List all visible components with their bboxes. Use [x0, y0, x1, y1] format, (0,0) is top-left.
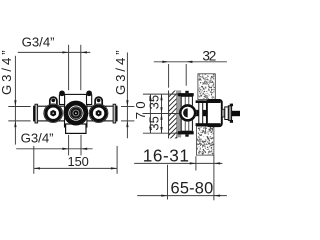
svg-text:G3/4”: G3/4”: [113, 48, 128, 95]
svg-text:G3/4”: G3/4”: [21, 131, 54, 146]
svg-text:G3/4”: G3/4”: [0, 48, 14, 95]
finished-wall hatched strip: [169, 89, 177, 145]
bottom G3/4 dimension line: [16, 148, 92, 150]
svg-text:16-31: 16-31: [143, 145, 190, 165]
svg-text:G3/4”: G3/4”: [22, 34, 55, 49]
bottom G3/4 extension lines: [68, 135, 70, 156]
right pipe end cap: [116, 106, 118, 121]
bottom cap bar: [178, 131, 194, 134]
side view riser pipe body: [181, 96, 192, 131]
right port dome: [95, 97, 102, 106]
right pipe edge ticks: [121, 106, 134, 108]
cartridge hub connectors: [192, 110, 198, 116]
spindle connector: [222, 109, 225, 117]
dimension 70: [149, 94, 151, 133]
masonry wall bottom block: [196, 126, 214, 155]
left pipe end cap: [33, 106, 35, 121]
left pipe flange: [35, 104, 38, 123]
masonry wall top block: [198, 74, 215, 100]
left port dome: [50, 97, 57, 106]
valve stem: [232, 111, 240, 116]
cartridge flange plate: [199, 101, 203, 126]
horizontal supply pipe: [34, 106, 117, 121]
right G3/4 dimension line: [126, 53, 128, 139]
cartridge top rail: [196, 100, 221, 103]
svg-text:35: 35: [147, 95, 162, 109]
left screw cylinder: [59, 95, 64, 105]
left port ring: [44, 104, 63, 123]
left pipe edge ticks: [8, 106, 30, 108]
svg-text:35: 35: [147, 116, 162, 130]
right screw cylinder: [87, 95, 92, 105]
dimension ticks 70/35: [143, 93, 179, 95]
left G3/4 dimension line: [14, 56, 16, 145]
dimension 150: [33, 146, 35, 174]
side view pipe circle: [179, 104, 197, 122]
bottom outlet stub: [66, 124, 86, 133]
right port ring: [89, 104, 108, 123]
top G3/4 dimension line: [18, 51, 91, 53]
dimension 35/35: [161, 94, 163, 133]
grey plaster column: [177, 90, 182, 137]
cartridge bottom rail: [196, 123, 221, 126]
top cap bar: [178, 93, 194, 96]
top G3/4 extension lines: [68, 45, 70, 90]
right pipe flange: [113, 104, 116, 123]
cartridge protection cap: [207, 100, 222, 126]
svg-text:150: 150: [68, 154, 89, 169]
central control knob (big donut): [63, 101, 88, 126]
valve body rectangle: [65, 94, 87, 127]
svg-text:32: 32: [202, 48, 215, 63]
splined collar: [228, 106, 231, 121]
svg-text:65-80: 65-80: [171, 180, 214, 198]
